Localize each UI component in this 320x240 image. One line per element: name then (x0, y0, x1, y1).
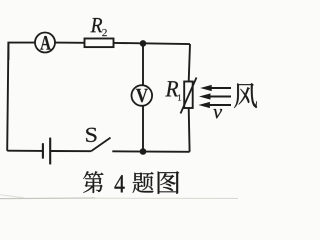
battery long plate (49, 138, 51, 165)
wind arrow 1 (200, 85, 231, 91)
left wire (7, 43, 8, 151)
battery short plate (42, 143, 44, 158)
middle branch wire lower (142, 106, 144, 152)
voltmeter label V (136, 89, 148, 102)
ammeter A circle (35, 33, 55, 53)
wire battery to switch (50, 150, 91, 152)
resistor R2 box (85, 39, 114, 48)
junction node bottom (dot) (140, 148, 147, 155)
wire R2 to top-right corner (114, 43, 191, 44)
wire switch to bottom junction (112, 150, 189, 153)
label subscript 1 of R1 (178, 94, 181, 100)
R1 diagonal arrow stroke (181, 78, 197, 114)
scan artifact bottom-left diagonal (0, 195, 24, 198)
switch S blade (91, 138, 110, 152)
ammeter label A (40, 36, 50, 50)
caption char 图 (158, 171, 180, 194)
label wind 风 (234, 83, 257, 108)
wind arrow 3 (198, 102, 231, 108)
switch label S (86, 128, 96, 142)
label subscript 2 of R2 (102, 29, 107, 36)
bottom wire left segment (7, 150, 43, 152)
voltmeter V circle (132, 85, 153, 106)
label R of R2 (90, 18, 102, 32)
wire ammeter to resistor R2 (55, 42, 85, 44)
label R of R1 (165, 81, 178, 96)
wind arrow 2 (199, 93, 231, 99)
right wire lower (188, 108, 191, 152)
wire top-left corner to ammeter (8, 43, 35, 60)
caption char 题 (133, 172, 154, 193)
caption digit 4 (115, 175, 125, 192)
label wind speed v (213, 109, 222, 118)
junction node top (dot) (140, 40, 147, 47)
wind-sensitive resistor R1 box (184, 82, 193, 109)
right wire upper (189, 44, 190, 81)
scan artifact bottom edge line (0, 197, 95, 200)
caption char 第 (83, 171, 103, 193)
middle branch wire upper (142, 43, 144, 85)
